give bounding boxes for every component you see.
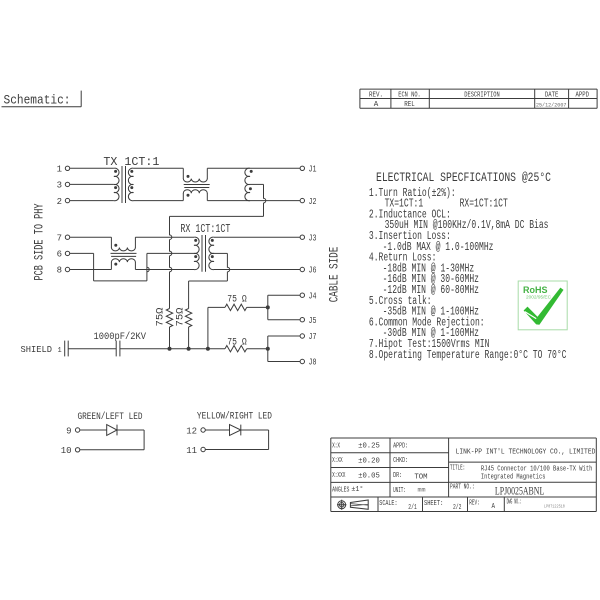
svg-text:2/1: 2/1 xyxy=(408,504,417,512)
svg-text:J4: J4 xyxy=(309,291,317,301)
svg-text:X:X: X:X xyxy=(332,442,340,450)
svg-text:SHIELD: SHIELD xyxy=(21,344,53,355)
svg-text:YELLOW/RIGHT LED: YELLOW/RIGHT LED xyxy=(197,411,272,423)
svg-text:A: A xyxy=(374,101,379,109)
svg-text:7: 7 xyxy=(57,233,62,243)
svg-text:J3: J3 xyxy=(309,233,317,243)
svg-text:6: 6 xyxy=(57,250,62,260)
svg-text:TOM: TOM xyxy=(414,473,428,481)
svg-text:A: A xyxy=(492,503,496,511)
svg-text:TX 1CT:1: TX 1CT:1 xyxy=(103,155,159,169)
svg-text:RX 1CT:1CT: RX 1CT:1CT xyxy=(180,222,230,236)
svg-text:RX=1CT:1CT: RX=1CT:1CT xyxy=(460,198,508,211)
svg-text:GREEN/LEFT LED: GREEN/LEFT LED xyxy=(78,411,143,423)
svg-text:DR:: DR: xyxy=(393,472,402,480)
svg-text:J6: J6 xyxy=(309,266,317,276)
svg-text:DATE: DATE xyxy=(545,91,559,99)
svg-text:APPD:: APPD: xyxy=(393,442,408,450)
svg-text:J1: J1 xyxy=(309,165,317,175)
svg-text:PCB SIDE TO PHY: PCB SIDE TO PHY xyxy=(32,203,46,280)
svg-text:REV:: REV: xyxy=(469,500,480,508)
svg-text:CABLE SIDE: CABLE SIDE xyxy=(327,247,341,303)
svg-text:X:XX: X:XX xyxy=(332,457,343,465)
svg-text:UNIT:: UNIT: xyxy=(393,487,406,495)
svg-text:±0.25: ±0.25 xyxy=(358,443,380,451)
svg-text:SHEET:: SHEET: xyxy=(424,500,443,508)
svg-text:J2: J2 xyxy=(309,197,317,207)
svg-text:1: 1 xyxy=(58,347,62,355)
svg-text:2002/95/EC: 2002/95/EC xyxy=(526,294,551,299)
svg-text:75Ω: 75Ω xyxy=(154,308,166,327)
svg-text:LINK-PP INT'L TECHNOLOGY CO.,: LINK-PP INT'L TECHNOLOGY CO., LIMITED xyxy=(456,449,596,457)
svg-text:X:XXX: X:XXX xyxy=(332,472,346,480)
svg-text:2: 2 xyxy=(57,197,62,207)
svg-text:mm: mm xyxy=(418,486,427,493)
svg-text:J8: J8 xyxy=(309,358,317,368)
svg-text:ECN NO.: ECN NO. xyxy=(398,91,421,99)
svg-text:±0.20: ±0.20 xyxy=(358,458,380,466)
svg-text:LPJ0025ABNL: LPJ0025ABNL xyxy=(495,483,544,497)
svg-text:Schematic:: Schematic: xyxy=(4,93,71,108)
svg-text:75Ω: 75Ω xyxy=(174,308,186,327)
svg-text:11: 11 xyxy=(186,446,197,456)
svg-text:10: 10 xyxy=(61,446,72,456)
svg-text:8: 8 xyxy=(57,266,62,276)
svg-text:25/12/2007: 25/12/2007 xyxy=(536,102,567,108)
svg-text:LP07122510: LP07122510 xyxy=(544,503,565,509)
svg-text:SCALE:: SCALE: xyxy=(379,500,397,508)
svg-text:75 Ω: 75 Ω xyxy=(227,293,246,305)
svg-text:REV.: REV. xyxy=(369,91,383,99)
svg-text:REL: REL xyxy=(404,101,415,109)
svg-text:APPD: APPD xyxy=(576,91,590,99)
svg-text:12: 12 xyxy=(186,426,197,436)
svg-text:DWG NO.:: DWG NO.: xyxy=(507,499,522,507)
svg-text:DESCRIPTION: DESCRIPTION xyxy=(464,91,500,99)
svg-text:J5: J5 xyxy=(309,316,317,326)
svg-text:PART NO.:: PART NO.: xyxy=(450,484,475,492)
svg-text:75 Ω: 75 Ω xyxy=(227,337,246,349)
svg-text:CHKD:: CHKD: xyxy=(393,457,408,465)
svg-text:1: 1 xyxy=(57,165,62,175)
svg-text:TITLE:: TITLE: xyxy=(450,465,465,473)
svg-text:3: 3 xyxy=(57,181,62,191)
svg-text:ANGLES: ANGLES xyxy=(332,487,350,495)
svg-text:±0.05: ±0.05 xyxy=(358,473,380,481)
svg-text:±1°: ±1° xyxy=(351,485,363,494)
svg-text:J7: J7 xyxy=(309,332,317,342)
svg-text:9: 9 xyxy=(66,426,71,436)
svg-text:Integrated Magnetics: Integrated Magnetics xyxy=(481,473,546,481)
svg-text:2/2: 2/2 xyxy=(453,504,461,512)
svg-text:8.Operating Temperature Range:: 8.Operating Temperature Range:0°C TO 70°… xyxy=(369,349,567,362)
svg-text:ELECTRICAL SPECFICATIONS @25°C: ELECTRICAL SPECFICATIONS @25°C xyxy=(376,170,551,185)
